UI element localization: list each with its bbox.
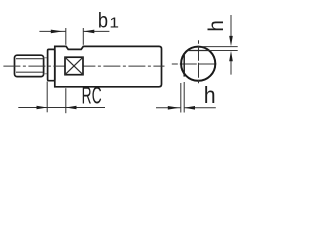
b1 extension line left xyxy=(65,28,67,45)
left flat chord xyxy=(183,53,185,76)
b1 extension line right xyxy=(82,28,84,45)
RC right arrowhead xyxy=(66,106,77,110)
flat symbol square xyxy=(65,57,83,74)
threaded stud body (side view left end) xyxy=(15,55,44,76)
vertical h lower arrowhead (up) xyxy=(229,51,233,61)
b1 left arrowhead xyxy=(51,30,63,34)
bottom h right arrowhead xyxy=(184,106,195,110)
thread minor line top xyxy=(16,58,43,60)
end view circle xyxy=(181,47,215,81)
flat symbol diagonal 2 xyxy=(65,57,83,74)
svg-text:b: b xyxy=(98,9,108,32)
relief neck top line xyxy=(44,57,48,59)
vertical h lower shaft xyxy=(230,61,232,75)
main body outline with top flat groove xyxy=(55,46,162,86)
thread minor line bottom xyxy=(16,71,43,73)
RC extension line right xyxy=(65,88,67,113)
bottom h extension line left (tangent) xyxy=(180,83,182,113)
vertical centerline (end view) xyxy=(198,40,200,84)
horizontal centerline (side view) xyxy=(3,65,164,67)
svg-text:h: h xyxy=(204,82,216,108)
RC dim line xyxy=(18,107,105,109)
svg-text:h: h xyxy=(205,20,228,32)
svg-text:1: 1 xyxy=(109,14,119,31)
horizontal centerline (end view) xyxy=(172,63,217,65)
RC left arrowhead xyxy=(37,106,48,110)
b1 dim line right tail xyxy=(84,30,110,32)
relief neck bottom line xyxy=(44,73,48,75)
flat symbol diagonal 1 xyxy=(65,57,83,74)
top chord extension to right xyxy=(210,50,238,52)
vertical h dim upper shaft xyxy=(230,15,232,36)
RC extension line left xyxy=(46,82,48,113)
b1 dim line left tail xyxy=(39,30,65,32)
bottom h dim right tail xyxy=(184,107,216,109)
vertical h upper arrowhead (down) xyxy=(229,36,233,46)
b1 right arrowhead xyxy=(84,30,95,34)
collar xyxy=(48,49,55,80)
label b1 xyxy=(98,9,119,32)
top flat chord xyxy=(188,50,210,52)
top tangent extension line xyxy=(202,46,238,48)
bottom h dim left tail xyxy=(156,107,181,109)
bottom h extension line right (chord ext) xyxy=(183,82,185,113)
bottom h left arrowhead xyxy=(168,106,179,110)
svg-text:RC: RC xyxy=(82,82,102,109)
